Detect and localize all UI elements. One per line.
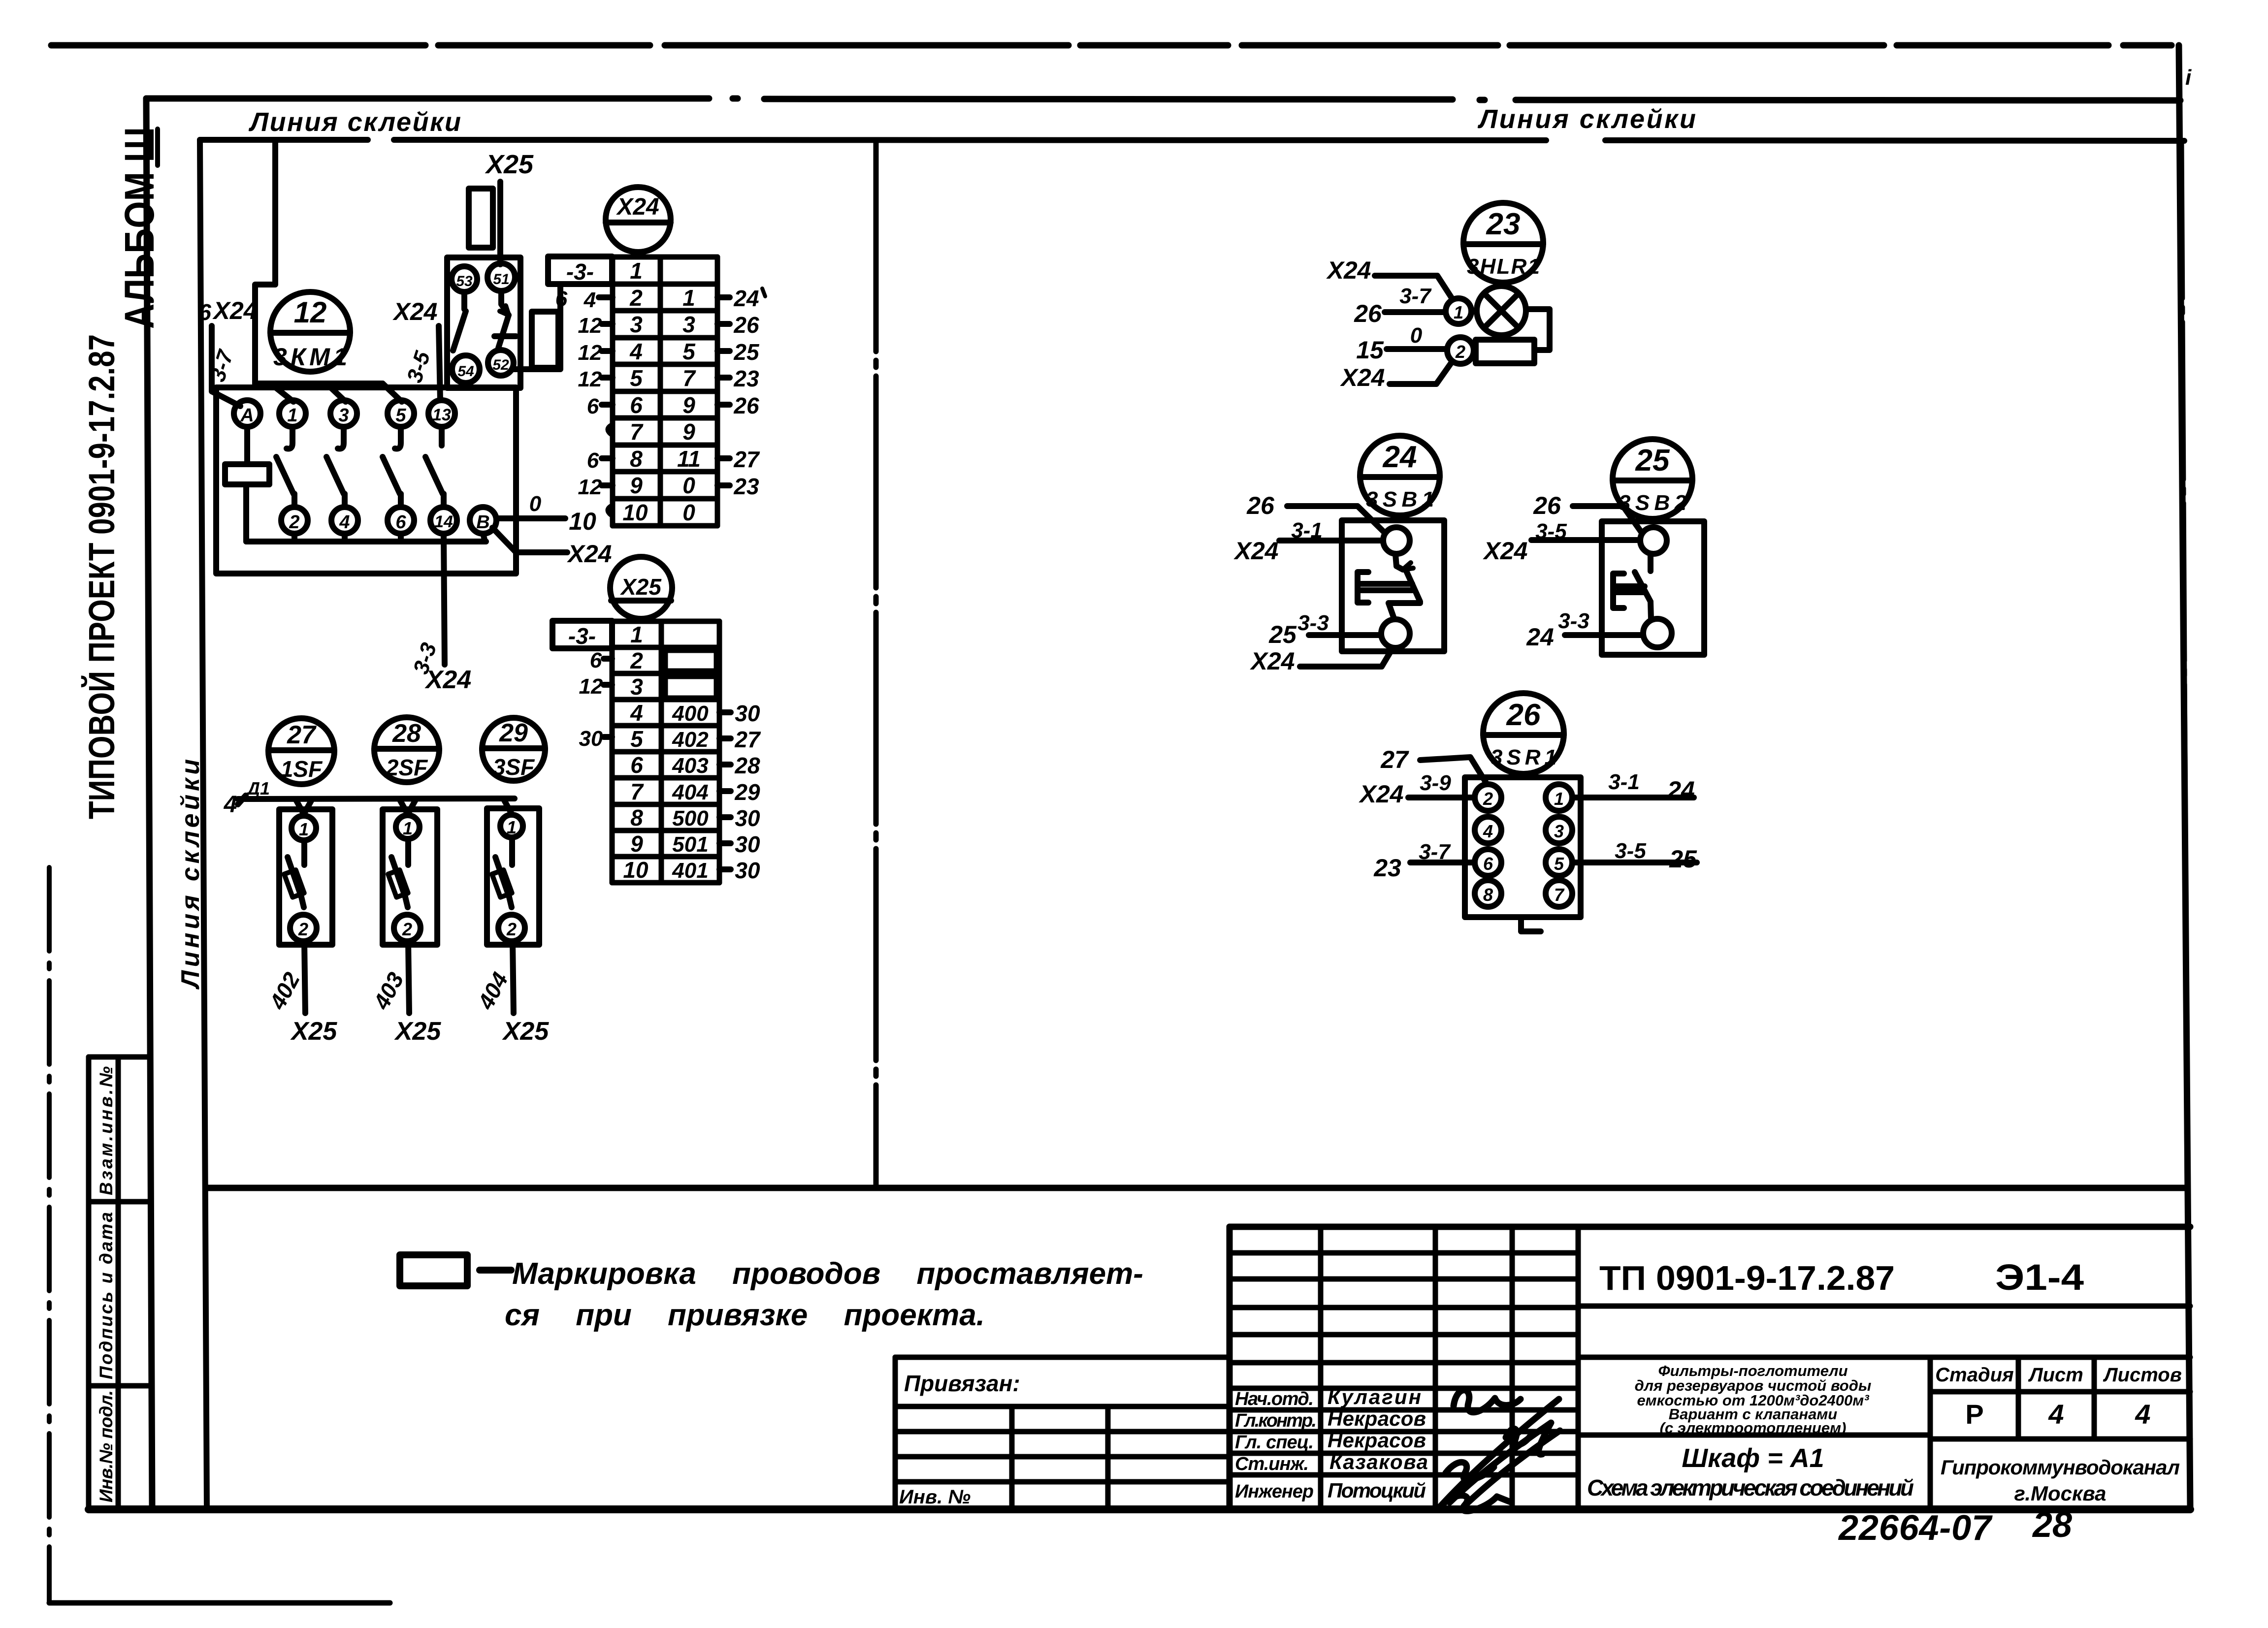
svg-text:4: 4 [1483, 821, 1493, 841]
wire: X24 to terminal 2 [1390, 362, 1452, 384]
svg-text:402: 402 [672, 728, 709, 752]
svg-text:51: 51 [493, 271, 509, 287]
svg-text:6: 6 [1483, 854, 1493, 874]
wire: 24 3-3 to SB2 bottom terminal [1565, 632, 1643, 638]
svg-text:6: 6 [587, 448, 599, 473]
svg-text:1: 1 [1454, 302, 1463, 322]
svg-text:X24: X24 [1483, 537, 1528, 565]
terminal 14 [430, 507, 457, 534]
svg-text:Инв. №: Инв. № [899, 1486, 971, 1508]
title block vertical lines [1321, 1227, 2094, 1509]
svg-text:6: 6 [198, 299, 211, 325]
svg-text:27: 27 [734, 727, 761, 752]
svg-text:25: 25 [733, 339, 760, 365]
coil of KM1 [225, 464, 269, 484]
svg-text:11: 11 [677, 446, 701, 472]
svg-text:Д1: Д1 [246, 778, 270, 798]
svg-text:Привязан:: Привязан: [904, 1371, 1020, 1396]
svg-text:26: 26 [1506, 698, 1541, 732]
svg-text:23: 23 [1373, 854, 1401, 882]
svg-text:(с электроотоплением): (с электроотоплением) [1660, 1419, 1847, 1436]
legend dash [480, 1267, 511, 1274]
aux terminal 52 [488, 350, 514, 376]
SB1 push-button contact symbol [1358, 554, 1420, 618]
svg-text:30: 30 [579, 727, 603, 751]
wire: X24 3-1 to SB1 top terminal [1279, 538, 1383, 543]
wire: pin 1 to 24 [1573, 795, 1694, 800]
3SF blade with fuse [492, 837, 512, 907]
svg-text:12: 12 [578, 367, 602, 391]
sidebar stamp boxes left margin [86, 1057, 92, 1508]
wire: A to coil [244, 427, 250, 464]
X25 pin numbers column [623, 622, 648, 883]
svg-text:X24: X24 [1326, 256, 1371, 284]
svg-text:23: 23 [733, 366, 759, 391]
inner drawing frame right dash-dot [2181, 141, 2187, 1188]
outer frame top line [146, 96, 709, 102]
svg-text:Инженер: Инженер [1235, 1481, 1314, 1502]
svg-text:12: 12 [578, 314, 602, 338]
inner drawing frame top [200, 137, 368, 143]
wire: 26 to SB1 top terminal [1287, 506, 1385, 533]
svg-text:Э1-4: Э1-4 [1995, 1257, 2084, 1298]
outer frame left line [146, 98, 152, 1508]
button SB2 designator circle 25/3SB2 [1613, 439, 1692, 519]
svg-text:Взам.инв.№: Взам.инв.№ [96, 1066, 116, 1195]
svg-text:3-3: 3-3 [1558, 609, 1589, 633]
connector X24 circle symbol [606, 187, 671, 252]
svg-text:7: 7 [1554, 885, 1565, 905]
svg-text:-3-: -3- [566, 259, 594, 285]
svg-text:24: 24 [1383, 440, 1417, 474]
svg-text:9: 9 [682, 392, 695, 418]
terminal 5 [388, 400, 414, 427]
SR1 bottom key mark [1521, 917, 1541, 931]
svg-text:3: 3 [682, 312, 695, 337]
terminal table X24 grid [613, 257, 717, 526]
underline of Ш [155, 129, 160, 165]
fuse switch 2SF designator circle 28 [374, 717, 439, 782]
svg-text:26: 26 [733, 393, 759, 418]
svg-text:8: 8 [630, 805, 643, 830]
wire: X24 3-5 to SB2 top terminal [1531, 537, 1640, 543]
wire: B to X24 [492, 528, 567, 552]
role labels column [1235, 1389, 1317, 1502]
svg-text:30: 30 [735, 831, 760, 857]
title block horizontal lines right section [1578, 1306, 2190, 1439]
svg-text:А: А [240, 405, 254, 426]
wire: 25 3-3 to SB1 bottom terminal [1309, 632, 1381, 638]
svg-text:2: 2 [506, 919, 517, 939]
svg-text:Некрасов: Некрасов [1328, 1429, 1426, 1452]
svg-text:8: 8 [630, 446, 643, 472]
svg-text:ся при привязке проекта.: ся при привязке проекта. [505, 1298, 985, 1332]
svg-text:29: 29 [499, 719, 528, 747]
SR1 pin 2 [1475, 784, 1501, 811]
aux blade 53-54 [453, 292, 466, 351]
svg-text:1: 1 [630, 258, 643, 284]
selector SR1 designator circle 26/3SR1 [1483, 693, 1564, 774]
lamp symbol [1477, 286, 1526, 335]
SB2 terminal top [1640, 527, 1667, 554]
2SF terminal 2 [394, 915, 421, 941]
wire: 15 to terminal 2 [1387, 346, 1447, 352]
SR1 pin 4 [1475, 817, 1501, 843]
SR1 pin 8 [1475, 880, 1501, 907]
wire: 27 to SR1 pin 2 [1420, 757, 1486, 783]
wire: X24 to lamp terminal 1 [1375, 276, 1453, 299]
svg-text:23: 23 [733, 474, 759, 499]
wire: 26 to terminal 1 [1385, 309, 1445, 315]
svg-text:8: 8 [1483, 885, 1493, 905]
button SB1 designator circle 24/3SB1 [1360, 436, 1440, 515]
svg-text:X25: X25 [394, 1017, 442, 1046]
SR1 pin 6 [1475, 849, 1501, 876]
SR1 pin 3 [1546, 817, 1572, 843]
svg-text:22664-07: 22664-07 [1838, 1508, 1993, 1548]
terminal 4 [331, 507, 358, 534]
wire: X24 to SB1 bottom terminal [1300, 648, 1393, 667]
aux blade 51-52 [494, 291, 516, 348]
svg-text:Инв.№ подл.: Инв.№ подл. [96, 1390, 116, 1502]
wire: 26 to SB2 top terminal [1573, 506, 1642, 533]
page bottom line [49, 1600, 390, 1606]
svg-text:3-7: 3-7 [1399, 284, 1432, 308]
wire: coil to bottom bus [243, 484, 249, 542]
svg-text:30: 30 [735, 701, 760, 726]
terminal table X25 grid [612, 621, 719, 883]
svg-text:500: 500 [672, 806, 709, 830]
fuse switch 2SF body box [383, 809, 437, 945]
svg-text:г.Москва: г.Москва [2014, 1482, 2106, 1505]
names column [1328, 1385, 1428, 1502]
svg-text:Листов: Листов [2103, 1364, 2182, 1386]
svg-text:6: 6 [590, 648, 602, 672]
wire: stub 2 [292, 534, 297, 542]
wire: 23 3-7 to pin 6 [1410, 860, 1474, 865]
svg-text:Лист: Лист [2028, 1364, 2083, 1386]
svg-text:6: 6 [630, 752, 643, 778]
svg-text:1SF: 1SF [281, 756, 323, 782]
wire: stub 4 [342, 534, 348, 542]
svg-text:27: 27 [287, 721, 317, 749]
svg-text:4: 4 [339, 512, 350, 533]
svg-text:5: 5 [630, 365, 643, 391]
svg-text:X25: X25 [290, 1017, 338, 1046]
SB1 terminal bottom [1381, 619, 1410, 648]
SB1 terminal top [1383, 527, 1410, 554]
svg-text:53: 53 [456, 273, 473, 289]
svg-text:X24: X24 [1359, 780, 1404, 808]
svg-text:3SF: 3SF [493, 754, 535, 780]
selector SR1 body box [1465, 777, 1581, 917]
svg-text:X25: X25 [619, 574, 662, 600]
schematic area bottom border [207, 1185, 2186, 1191]
svg-text:Схема электрическая соединений: Схема электрическая соединений [1587, 1475, 1914, 1500]
aux terminal 53 [452, 266, 477, 292]
svg-text:400: 400 [672, 702, 709, 726]
button SB1 body box [1342, 520, 1444, 651]
svg-text:4: 4 [2048, 1399, 2064, 1430]
svg-text:Стадия: Стадия [1935, 1364, 2013, 1386]
SB2 terminal bottom [1643, 619, 1672, 647]
svg-text:3КМ1: 3КМ1 [273, 343, 347, 371]
svg-text:Гипрокоммунводоканал: Гипрокоммунводоканал [1941, 1456, 2180, 1479]
terminal A [234, 400, 260, 427]
svg-text:1: 1 [299, 819, 309, 839]
svg-text:3-3: 3-3 [1297, 611, 1329, 635]
svg-text:X25: X25 [502, 1017, 550, 1046]
fuse switch 3SF designator circle 29 [482, 718, 545, 781]
svg-text:1: 1 [682, 285, 695, 311]
contact blade pole 5-6 [383, 427, 401, 507]
wire: X25 down to aux contact 51 [497, 182, 503, 264]
2SF blade with fuse [388, 839, 408, 907]
svg-text:28: 28 [734, 753, 760, 778]
svg-text:X24: X24 [1340, 364, 1385, 391]
wire: drop to pole 3 [327, 384, 346, 402]
svg-text:3: 3 [630, 674, 643, 700]
lamp terminal 1 [1446, 298, 1471, 324]
outer frame right line [2179, 45, 2190, 1508]
svg-text:Подпись и дата: Подпись и дата [96, 1212, 116, 1379]
contact blade pole 1-2 [276, 427, 294, 507]
svg-text:X24: X24 [424, 666, 472, 694]
svg-text:X25: X25 [485, 150, 534, 179]
svg-text:15: 15 [1356, 336, 1384, 364]
1SF terminal 2 [290, 915, 317, 941]
svg-text:28: 28 [392, 719, 421, 748]
3SF terminal 1 [500, 815, 523, 837]
SR1 pin 1 [1546, 784, 1572, 811]
svg-text:Гл.контр.: Гл.контр. [1235, 1410, 1317, 1431]
svg-text:9: 9 [630, 831, 643, 857]
svg-text:6: 6 [555, 287, 568, 311]
svg-text:В: В [476, 512, 489, 533]
legend marking box [400, 1255, 467, 1286]
terminal 6 [388, 507, 414, 534]
svg-text:X24: X24 [567, 540, 612, 568]
svg-text:30: 30 [735, 858, 760, 883]
svg-text:4: 4 [630, 700, 643, 726]
svg-text:X24: X24 [616, 194, 659, 220]
svg-text:5: 5 [630, 726, 644, 752]
contact blade pole 3-4 [326, 427, 345, 507]
svg-text:1: 1 [403, 818, 413, 838]
marking box -3- at X24 row 1 [548, 256, 612, 285]
svg-text:1: 1 [507, 817, 517, 837]
svg-text:2: 2 [1483, 789, 1493, 809]
svg-text:X24: X24 [392, 298, 438, 325]
svg-text:X24: X24 [1250, 647, 1295, 675]
wire: 2SF to X25 [408, 941, 409, 1013]
svg-text:Кулагин: Кулагин [1328, 1385, 1421, 1408]
lamp terminal 2 [1447, 337, 1474, 364]
svg-text:25: 25 [1635, 444, 1670, 478]
svg-text:26: 26 [733, 312, 759, 338]
svg-text:5: 5 [395, 405, 406, 426]
aux contact block of KM1 [447, 257, 520, 388]
svg-text:Некрасов: Некрасов [1328, 1407, 1426, 1430]
svg-text:29: 29 [734, 779, 760, 805]
svg-text:401: 401 [672, 859, 708, 883]
svg-text:9: 9 [630, 473, 643, 498]
svg-text:27: 27 [1380, 746, 1409, 773]
svg-text:6: 6 [587, 394, 599, 418]
svg-text:26: 26 [1246, 492, 1275, 519]
svg-text:403: 403 [672, 754, 708, 778]
terminal 13 [428, 400, 455, 427]
wire: bottom bus of contactor [246, 539, 486, 544]
svg-text:12: 12 [579, 674, 603, 699]
X25 wire-number column [672, 702, 709, 883]
svg-text:1: 1 [630, 622, 643, 647]
signatures scribble [1440, 1390, 1560, 1511]
svg-text:4: 4 [2135, 1399, 2150, 1430]
fuse switch 1SF body box [279, 809, 332, 945]
wire: lamp to resistor loop [1526, 309, 1550, 350]
svg-text:ТИПОВОЙ ПРОЕКТ 0901-9-17.2.87: ТИПОВОЙ ПРОЕКТ 0901-9-17.2.87 [81, 334, 122, 819]
svg-text:12: 12 [294, 296, 327, 329]
X25 right wire labels [719, 701, 761, 883]
svg-text:30: 30 [735, 805, 760, 831]
wire: bus left end tick [238, 796, 246, 804]
wire: bus jog into 1SF [295, 799, 312, 814]
project description text [1635, 1362, 1872, 1436]
X24 wire-number column [677, 285, 701, 525]
svg-text:Гл. спец.: Гл. спец. [1235, 1432, 1314, 1453]
svg-text:3: 3 [630, 312, 643, 337]
svg-text:-3-: -3- [568, 623, 596, 649]
resistor of lamp [1476, 340, 1534, 363]
svg-text:X24: X24 [1233, 537, 1279, 565]
svg-text:5: 5 [682, 339, 696, 364]
svg-text:3HLR1: 3HLR1 [1467, 255, 1540, 279]
wire: stub B to bus [483, 534, 485, 542]
wire: stub 6 [398, 534, 404, 542]
wire: pin 5 to 25 [1573, 860, 1697, 865]
terminal 2 [281, 507, 308, 534]
connector X25 circle symbol [610, 557, 672, 619]
svg-text:3-1: 3-1 [1608, 770, 1640, 794]
svg-text:Шкаф = А1: Шкаф = А1 [1682, 1443, 1824, 1473]
svg-text:9: 9 [682, 419, 695, 445]
wire marking box [469, 189, 493, 248]
2SF terminal 1 [396, 815, 420, 839]
svg-text:10: 10 [569, 508, 596, 535]
svg-text:26: 26 [1533, 492, 1561, 519]
svg-text:1: 1 [287, 405, 297, 426]
fuse switch 3SF body box [487, 808, 539, 945]
Привязан table [895, 1357, 1230, 1509]
svg-text:13: 13 [432, 406, 451, 424]
svg-text:24: 24 [733, 286, 759, 311]
central divider dash-dot line [874, 140, 879, 1188]
button SB2 body box [1602, 521, 1704, 655]
svg-text:2: 2 [629, 285, 643, 311]
svg-text:7: 7 [630, 419, 644, 445]
X24 left wire labels [555, 287, 613, 515]
svg-text:X24: X24 [212, 297, 258, 324]
terminal B [470, 507, 496, 534]
svg-text:ТП 0901-9-17.2.87: ТП 0901-9-17.2.87 [1599, 1259, 1895, 1297]
svg-text:25: 25 [1268, 621, 1297, 648]
1SF blade with fuse [284, 840, 304, 907]
lamp HLR1 designator circle 23/3HLR1 [1463, 203, 1543, 283]
title block outer borders [1230, 1227, 2190, 1509]
svg-text:2: 2 [630, 648, 643, 673]
wire: bus jog into 2SF [399, 799, 416, 814]
svg-text:0: 0 [682, 473, 695, 498]
svg-text:3-9: 3-9 [1420, 771, 1451, 795]
svg-text:2: 2 [289, 512, 299, 533]
svg-text:i: i [2185, 65, 2192, 90]
X25 left wire labels [579, 648, 612, 751]
top edge dashed line of sheet [51, 42, 2171, 49]
svg-text:24: 24 [1526, 623, 1554, 651]
svg-text:5: 5 [1554, 854, 1564, 874]
svg-text:7: 7 [682, 365, 696, 391]
X24 right wire labels [717, 286, 765, 499]
wire: drop to pole 1 [272, 384, 293, 402]
svg-text:6: 6 [395, 512, 406, 533]
aux terminal 54 [452, 355, 480, 383]
svg-text:501: 501 [672, 832, 708, 857]
marking box -3- at X25 row 1 [552, 621, 612, 649]
svg-text:3: 3 [1554, 821, 1564, 841]
wire: feed from top frame to contactor [255, 141, 275, 383]
svg-text:54: 54 [457, 363, 474, 380]
X24 pin numbers column [622, 258, 648, 525]
wire: X24 3-7 to terminal A [212, 326, 240, 406]
svg-text:27: 27 [733, 447, 760, 472]
inner drawing frame left [200, 140, 207, 1508]
svg-text:52: 52 [492, 357, 509, 373]
outer frame bottom line [89, 1505, 2190, 1513]
svg-text:3: 3 [338, 405, 349, 426]
wire marking box [532, 312, 558, 368]
svg-text:4: 4 [629, 339, 643, 364]
3SF terminal 2 [498, 915, 525, 941]
wire: 1SF to X25 [304, 941, 305, 1013]
wire: B to 10 [496, 515, 565, 521]
svg-text:Маркировка проводов проставляе: Маркировка проводов проставляет- [512, 1257, 1143, 1291]
svg-text:404: 404 [672, 780, 708, 804]
svg-text:0: 0 [682, 500, 695, 525]
svg-text:Ст.инж.: Ст.инж. [1235, 1454, 1309, 1474]
contactor KM1 contact box [216, 387, 516, 574]
svg-text:2: 2 [402, 919, 412, 939]
svg-text:25: 25 [1669, 845, 1697, 873]
svg-text:2SF: 2SF [386, 755, 428, 780]
SR1 pin 5 [1546, 849, 1572, 876]
svg-text:10: 10 [623, 857, 648, 883]
svg-text:28: 28 [2032, 1505, 2072, 1545]
page left border dash-dot [47, 867, 52, 1603]
X25 wire marking boxes rows 2-3 [666, 651, 716, 670]
svg-text:10: 10 [622, 500, 648, 525]
wire: drop to pole 5 [383, 383, 402, 402]
svg-text:4: 4 [583, 288, 596, 312]
svg-text:2: 2 [1455, 342, 1465, 362]
svg-text:14: 14 [434, 512, 453, 531]
svg-text:23: 23 [1486, 207, 1521, 241]
contact blade pole 13-14 [425, 427, 444, 507]
wire: X24 3-9 to pin 2 [1408, 795, 1474, 800]
svg-text:1: 1 [1554, 789, 1564, 809]
svg-text:0: 0 [529, 492, 542, 516]
wire: bus jog into 3SF [503, 798, 512, 814]
